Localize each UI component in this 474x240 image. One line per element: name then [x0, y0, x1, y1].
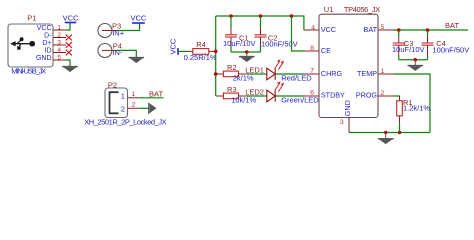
- power flag VCC at P1: [65, 22, 76, 24]
- svg-text:5: 5: [57, 55, 61, 62]
- P1 pin 2 stub: [53, 37, 66, 39]
- capacitor C2: [260, 16, 262, 28]
- svg-text:D+: D+: [42, 40, 51, 47]
- junction CE branch: [290, 14, 294, 18]
- svg-text:10uF/10V: 10uF/10V: [392, 45, 425, 54]
- wire VCC to R4: [178, 50, 187, 52]
- svg-text:LED1: LED1: [245, 65, 264, 74]
- P2 pin 1 stub: [128, 97, 140, 99]
- svg-text:10k/1%: 10k/1%: [231, 95, 256, 104]
- junction R4/bus: [214, 50, 218, 54]
- svg-text:U1: U1: [324, 5, 334, 14]
- svg-text:R2: R2: [227, 63, 237, 72]
- svg-text:TEMP: TEMP: [357, 69, 377, 78]
- U1 pin 5 stub: [378, 29, 394, 31]
- P1 pin 3 stub: [53, 44, 66, 46]
- svg-text:CHRG: CHRG: [321, 69, 343, 78]
- U1 pin 6 stub: [304, 95, 319, 97]
- svg-text:VCC: VCC: [37, 25, 52, 32]
- wire bottom rail: [349, 132, 430, 134]
- junction C2: [259, 14, 263, 18]
- ground at P4: [129, 58, 145, 63]
- ground at C1C2: [239, 52, 255, 61]
- P3 pin: [102, 30, 117, 32]
- P1 pin 5 stub: [53, 59, 66, 61]
- svg-text:1: 1: [132, 91, 136, 98]
- svg-text:1: 1: [121, 92, 125, 101]
- U1 pin 1 stub: [378, 73, 394, 75]
- wire PROG to R1: [394, 95, 400, 98]
- connector P1 body: [8, 24, 53, 67]
- no-connect X pin 2: [66, 35, 72, 41]
- svg-text:Red/LED: Red/LED: [281, 73, 312, 82]
- svg-text:100nF/50V: 100nF/50V: [433, 45, 470, 54]
- LED LED1: [267, 68, 275, 80]
- svg-text:R4: R4: [196, 40, 206, 49]
- junction C3: [397, 28, 401, 32]
- junction C1C2 gnd: [245, 50, 249, 54]
- junction R1 rail: [398, 131, 401, 134]
- P2 pin 2 stub: [128, 107, 140, 109]
- svg-text:4: 4: [311, 24, 315, 31]
- svg-text:VCC: VCC: [130, 14, 146, 23]
- svg-text:STDBY: STDBY: [321, 91, 345, 100]
- svg-text:IN-: IN-: [112, 48, 123, 57]
- svg-text:2: 2: [57, 32, 61, 39]
- svg-text:3: 3: [340, 119, 344, 126]
- svg-text:R3: R3: [227, 85, 237, 94]
- wire P2 pin1 to BAT: [139, 97, 164, 99]
- wire P1 pin5 to ground: [66, 60, 70, 66]
- wire R2 to LED1: [247, 73, 267, 75]
- USB icon: [10, 37, 35, 49]
- wire BAT rail: [394, 29, 469, 31]
- junction R2/bus: [214, 72, 218, 76]
- svg-text:8: 8: [310, 45, 314, 52]
- wire R3 to LED2: [247, 95, 267, 97]
- svg-text:100nF/50V: 100nF/50V: [261, 40, 298, 49]
- U1 pin 3 stub: [348, 117, 350, 132]
- P2 bracket: [110, 92, 119, 113]
- svg-text:CE: CE: [321, 46, 331, 55]
- P1 pin 1 stub: [53, 29, 66, 31]
- wire C1-C2 join: [231, 51, 261, 53]
- junction C3C4 gnd: [414, 58, 418, 62]
- ground at rail: [378, 133, 394, 144]
- svg-text:D-: D-: [44, 32, 52, 39]
- power flag VCC at P3: [139, 23, 141, 31]
- svg-text:VCC: VCC: [169, 38, 178, 54]
- LED LED2: [267, 90, 275, 102]
- svg-text:1: 1: [381, 68, 385, 75]
- capacitor C1: [230, 16, 232, 28]
- wire CE branch: [292, 16, 304, 51]
- svg-text:VCC: VCC: [321, 25, 336, 34]
- svg-text:2: 2: [121, 105, 125, 114]
- svg-text:BAT: BAT: [445, 21, 459, 30]
- U1 pin 2 stub: [378, 95, 394, 97]
- svg-text:GND: GND: [36, 55, 52, 62]
- svg-text:TP4056_JX: TP4056_JX: [344, 5, 380, 14]
- U1 pin 4 stub: [304, 29, 319, 31]
- svg-text:5: 5: [381, 24, 385, 31]
- vertical bus wire: [215, 16, 217, 96]
- svg-text:4: 4: [57, 47, 61, 54]
- svg-text:6: 6: [310, 90, 314, 97]
- P4 pin: [102, 49, 117, 51]
- connector P4 body: [98, 44, 112, 58]
- junction gnd rail: [384, 131, 387, 134]
- svg-text:3: 3: [57, 40, 61, 47]
- wire P3 to VCC: [117, 30, 140, 32]
- resistor R2: [216, 73, 224, 75]
- U1 pin 8 stub: [304, 50, 319, 52]
- svg-text:BAT: BAT: [364, 25, 378, 34]
- svg-text:0.25R/1%: 0.25R/1%: [184, 53, 217, 62]
- svg-text:XH_2501R_2P_Locked_JX: XH_2501R_2P_Locked_JX: [84, 117, 167, 126]
- svg-text:2: 2: [132, 102, 136, 109]
- wire LED2 to STDBY: [275, 95, 304, 97]
- connector P3 body: [98, 24, 112, 38]
- wire TEMP to rail: [394, 74, 431, 133]
- capacitor C3: [398, 30, 400, 36]
- U1 pin 7 stub: [304, 73, 319, 75]
- svg-text:2k/1%: 2k/1%: [233, 73, 254, 82]
- capacitor C4: [427, 30, 429, 36]
- wire P2 pin2 to ground: [139, 107, 148, 109]
- ground at P2 pin2: [149, 103, 156, 114]
- svg-text:7: 7: [310, 68, 314, 75]
- junction C4: [426, 28, 430, 32]
- no-connect X pin 4: [66, 50, 72, 56]
- svg-text:BAT: BAT: [149, 89, 163, 98]
- svg-text:1: 1: [57, 25, 61, 32]
- svg-text:2: 2: [381, 90, 385, 97]
- wire LED1 to CHRG: [275, 73, 304, 75]
- svg-text:PROG: PROG: [356, 91, 378, 100]
- svg-text:10uF/10V: 10uF/10V: [223, 39, 256, 48]
- svg-text:GND: GND: [343, 100, 352, 116]
- resistor R3: [216, 95, 224, 97]
- svg-text:P1: P1: [27, 14, 36, 23]
- svg-text:ID: ID: [45, 47, 52, 54]
- junction C1: [229, 14, 233, 18]
- resistor R4: [187, 50, 193, 52]
- svg-text:MINI-USB_JX: MINI-USB_JX: [11, 67, 46, 76]
- top rail wire: [216, 16, 304, 30]
- P1 pin 4 stub: [53, 52, 66, 54]
- svg-text:VCC: VCC: [63, 13, 79, 22]
- svg-text:Green/LED: Green/LED: [281, 95, 319, 104]
- wire P1 pin1 to VCC: [66, 23, 70, 31]
- svg-text:LED2: LED2: [245, 87, 264, 96]
- ground at C3C4: [408, 60, 424, 71]
- resistor R1: [399, 96, 401, 101]
- ground at P1: [62, 67, 78, 72]
- svg-text:1.2k/1%: 1.2k/1%: [403, 104, 430, 113]
- connector P2 body: [105, 88, 128, 118]
- IC U1 body: [319, 14, 378, 117]
- power flag VCC rotated at R4: [177, 48, 179, 55]
- no-connect X pin 3: [66, 42, 72, 48]
- wire C3-C4 join: [399, 59, 428, 61]
- wire P4 to ground: [117, 50, 136, 57]
